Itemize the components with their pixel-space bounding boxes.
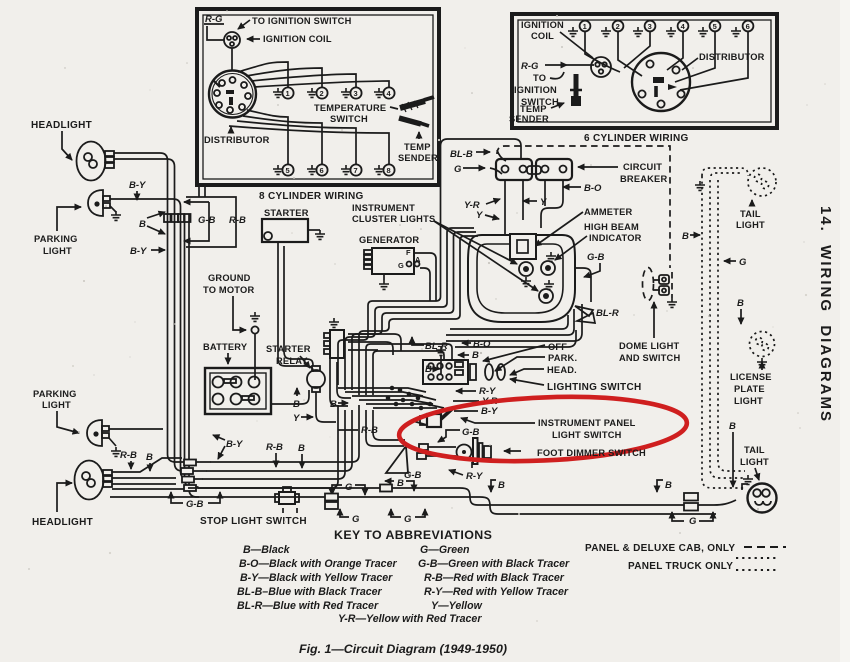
- svg-text:TEMP: TEMP: [404, 142, 431, 152]
- wire label to parking light: [57, 207, 81, 231]
- plug 1: [273, 87, 294, 98]
- wire coil left to R-G: [207, 26, 224, 40]
- svg-text:HEADLIGHT: HEADLIGHT: [31, 120, 92, 131]
- svg-text:F: F: [406, 248, 411, 257]
- svg-text:G: G: [352, 514, 360, 525]
- svg-text:TO MOTOR: TO MOTOR: [203, 285, 254, 295]
- red highlight ellipse: [398, 391, 688, 467]
- svg-text:PARKING: PARKING: [33, 389, 77, 399]
- plug4: [666, 21, 688, 37]
- svg-text:INSTRUMENT: INSTRUMENT: [352, 203, 415, 213]
- lighting switch SW1: [423, 360, 505, 384]
- plug 7: [341, 164, 362, 175]
- tail light TL1 (top, dotted): [748, 168, 776, 196]
- ignition switch (column): [324, 318, 344, 358]
- svg-text:TAIL: TAIL: [744, 445, 765, 455]
- plug 8: [374, 164, 395, 175]
- plug1: [568, 21, 590, 37]
- svg-text:G-B: G-B: [198, 215, 216, 226]
- wire ignition switch down 1: [330, 358, 348, 406]
- ground at bottom tail light: [742, 484, 748, 490]
- circuit breaker CB1: [496, 159, 572, 180]
- wire feeder short 6: [373, 410, 405, 440]
- ammeter A1: [510, 234, 536, 259]
- svg-text:1: 1: [286, 89, 290, 98]
- svg-text:G: G: [404, 514, 412, 525]
- left vertical bus wires: [185, 214, 199, 487]
- connector sleeves: [164, 214, 171, 222]
- svg-text:HIGH BEAM: HIGH BEAM: [584, 222, 639, 232]
- wire cluster right to hooks: [575, 268, 591, 302]
- svg-text:R-B: R-B: [361, 425, 378, 436]
- parking light PL1 (upper): [88, 190, 121, 220]
- cluster bulb 2: [539, 289, 553, 303]
- svg-text:Y—Yellow: Y—Yellow: [431, 600, 483, 612]
- svg-text:STARTER: STARTER: [266, 344, 311, 354]
- dome light DL1: [643, 268, 678, 308]
- connector sleeves on left bottom: [184, 460, 196, 466]
- wire nest row 1: [338, 388, 426, 392]
- svg-text:FOOT DIMMER SWITCH: FOOT DIMMER SWITCH: [537, 448, 646, 458]
- wire arrow to coil: [247, 38, 260, 40]
- svg-text:B-Y—Black with Yellow Tracer: B-Y—Black with Yellow Tracer: [240, 572, 393, 584]
- svg-text:B-Y: B-Y: [226, 439, 244, 450]
- staircase wire 6 (switch feed): [373, 351, 444, 395]
- connector sleeves on bus: [325, 494, 338, 501]
- svg-text:PLATE: PLATE: [734, 384, 765, 394]
- wire nest row 3: [352, 396, 436, 400]
- svg-text:IGNITION: IGNITION: [521, 20, 564, 30]
- wire nest row 5: [366, 404, 444, 408]
- sleeves right: [684, 493, 698, 501]
- svg-text:B: B: [146, 452, 153, 463]
- bottom bus to tail light: [188, 488, 736, 505]
- svg-text:INDICATOR: INDICATOR: [589, 233, 642, 243]
- wire arrow to coil: [238, 20, 250, 29]
- svg-text:B: B: [682, 231, 689, 242]
- svg-text:R-G: R-G: [521, 61, 539, 72]
- svg-text:OFF: OFF: [548, 342, 567, 352]
- arrow B to wires: [147, 212, 165, 218]
- svg-text:Y-R—Yellow with Red Tracer: Y-R—Yellow with Red Tracer: [338, 613, 482, 625]
- legend: panel & deluxe cab: [585, 543, 786, 572]
- svg-text:BATTERY: BATTERY: [203, 342, 248, 352]
- wire parking light to bus: [110, 199, 203, 479]
- svg-text:B: B: [729, 421, 736, 432]
- plug 3: [341, 87, 362, 98]
- svg-text:BL-R: BL-R: [425, 341, 448, 352]
- wire battery to relay: [271, 390, 309, 404]
- cluster bulb 1: [519, 262, 533, 276]
- wires breaker to cluster: [504, 180, 506, 236]
- svg-text:LIGHT: LIGHT: [734, 396, 763, 406]
- hook terminal wire 2: [446, 309, 574, 335]
- staircase wire 3: [352, 232, 476, 390]
- svg-text:BL-R—Blue with Red Tracer: BL-R—Blue with Red Tracer: [237, 600, 379, 612]
- svg-text:TEMPERATURE: TEMPERATURE: [314, 103, 386, 113]
- svg-text:3: 3: [648, 22, 652, 31]
- svg-text:HEAD.: HEAD.: [547, 365, 577, 375]
- svg-text:B-O: B-O: [473, 339, 491, 350]
- spark wires to plugs 5-8: [247, 110, 288, 164]
- wire G to breaker: [490, 168, 502, 174]
- plug 5: [273, 164, 294, 175]
- svg-text:R-Y—Red with Yellow Tracer: R-Y—Red with Yellow Tracer: [424, 586, 569, 598]
- svg-text:LIGHT: LIGHT: [736, 220, 765, 230]
- svg-text:DISTRIBUTOR: DISTRIBUTOR: [204, 135, 270, 145]
- svg-text:AMMETER: AMMETER: [584, 207, 632, 217]
- svg-text:SENDER: SENDER: [398, 153, 438, 163]
- svg-text:LIGHT: LIGHT: [740, 457, 769, 467]
- foot dimmer switch SW4: [417, 438, 491, 464]
- wire label to lower headlight: [57, 483, 72, 512]
- svg-text:3: 3: [354, 89, 358, 98]
- wire ignition switch down 2: [337, 362, 351, 398]
- arrow B-Y down: [136, 191, 138, 200]
- wire nest row 4: [359, 400, 433, 404]
- svg-text:IGNITION COIL: IGNITION COIL: [263, 34, 332, 44]
- svg-text:B: B: [293, 399, 300, 410]
- svg-text:LIGHT: LIGHT: [43, 246, 72, 256]
- svg-text:Fig. 1—Circuit Diagram (1949-1: Fig. 1—Circuit Diagram (1949-1950): [299, 642, 507, 656]
- right dotted bus (panel truck only): [702, 176, 746, 488]
- wire relay down: [316, 392, 336, 422]
- svg-text:G-B—Green with Black Tracer: G-B—Green with Black Tracer: [418, 558, 570, 570]
- svg-text:B: B: [397, 478, 404, 489]
- svg-text:B-Y: B-Y: [130, 246, 148, 257]
- wire generator A terminal: [420, 268, 430, 301]
- wire ignition feed 3: [348, 349, 378, 351]
- svg-text:TO: TO: [533, 73, 546, 83]
- svg-text:B: B: [737, 298, 744, 309]
- plug3: [633, 21, 655, 37]
- svg-text:5: 5: [713, 22, 717, 31]
- svg-text:G: G: [454, 164, 462, 175]
- inset frame: [197, 9, 439, 185]
- svg-text:G: G: [689, 516, 697, 527]
- svg-text:PANEL TRUCK ONLY: PANEL TRUCK ONLY: [628, 561, 733, 572]
- dashed wire to dome (panel/deluxe cab): [497, 146, 670, 268]
- bracket R-B: [186, 197, 236, 247]
- svg-text:1: 1: [583, 22, 587, 31]
- starter relay K1: [307, 366, 325, 392]
- svg-text:B-O: B-O: [584, 183, 602, 194]
- junction dots: [398, 388, 403, 393]
- svg-text:B-Y: B-Y: [481, 406, 499, 417]
- arrow instrument panel label to switch: [461, 418, 535, 423]
- wire headlight to bus: [114, 153, 211, 462]
- wire parking lower to bus: [109, 428, 163, 430]
- svg-text:B—Black: B—Black: [243, 544, 291, 556]
- battery BAT1: [205, 368, 271, 414]
- wire feeder to left fan 3: [202, 410, 345, 479]
- svg-text:GENERATOR: GENERATOR: [359, 235, 419, 245]
- wire coil to distributor: [231, 48, 233, 70]
- svg-text:LIGHT: LIGHT: [42, 400, 71, 410]
- svg-text:7: 7: [354, 166, 358, 175]
- svg-text:BL-B: BL-B: [450, 149, 473, 160]
- svg-text:R-B—Red with Black Tracer: R-B—Red with Black Tracer: [424, 572, 565, 584]
- svg-text:5: 5: [286, 166, 290, 175]
- svg-text:PARK.: PARK.: [548, 353, 577, 363]
- staircase wire 5 (switch feed): [366, 344, 452, 395]
- wire ignition feed 1: [348, 334, 401, 351]
- generator G1: [364, 248, 421, 289]
- svg-text:DOME LIGHT: DOME LIGHT: [619, 341, 679, 351]
- hook terminal wire 3: [450, 315, 568, 329]
- svg-text:B: B: [472, 350, 479, 361]
- spark wires to plugs 1-4: [238, 62, 288, 87]
- svg-text:IGNITION: IGNITION: [514, 85, 557, 95]
- svg-text:B: B: [498, 480, 505, 491]
- arrow foot dimmer: [504, 450, 521, 452]
- svg-text:TO IGNITION SWITCH: TO IGNITION SWITCH: [252, 16, 352, 26]
- wire ignition feed 2: [348, 342, 393, 355]
- headlight HL2 (lower): [75, 461, 113, 500]
- svg-text:R-B: R-B: [266, 442, 283, 453]
- wire generator F terminal: [414, 253, 436, 301]
- svg-text:2: 2: [616, 22, 620, 31]
- svg-text:8 CYLINDER WIRING: 8 CYLINDER WIRING: [259, 191, 364, 202]
- svg-text:PARKING: PARKING: [34, 234, 78, 244]
- svg-text:LICENSE: LICENSE: [730, 372, 772, 382]
- temp switch / sender symbols: [399, 97, 434, 126]
- ground top right: [695, 181, 705, 190]
- tail light TL2 (bottom): [748, 484, 777, 513]
- svg-text:R-Y: R-Y: [466, 471, 484, 482]
- svg-text:G: G: [739, 257, 747, 268]
- wire stubs from inset box to loop: [199, 187, 205, 197]
- plug2: [601, 21, 623, 37]
- hook terminal wire 4: [455, 330, 576, 347]
- KEY TO ABBREVIATIONS: [237, 528, 570, 625]
- instrument cluster body: [468, 235, 575, 322]
- svg-text:BREAKER: BREAKER: [620, 174, 667, 184]
- svg-text:6 CYLINDER WIRING: 6 CYLINDER WIRING: [584, 133, 689, 144]
- svg-text:PANEL & DELUXE CAB, ONLY: PANEL & DELUXE CAB, ONLY: [585, 543, 735, 554]
- svg-text:BL-R: BL-R: [596, 308, 619, 319]
- svg-text:B: B: [298, 443, 305, 454]
- svg-text:COIL: COIL: [531, 31, 554, 41]
- temp sender (6cyl): [570, 74, 582, 106]
- dotted wires to top tail light: [702, 168, 748, 176]
- wire ammeter label: [535, 212, 583, 246]
- parking light PL2 (lower): [87, 420, 121, 456]
- instrument panel light switch SW3: [413, 409, 452, 427]
- svg-text:LIGHTING SWITCH: LIGHTING SWITCH: [547, 382, 642, 393]
- svg-text:B-O—Black with Orange Tracer: B-O—Black with Orange Tracer: [239, 558, 397, 570]
- svg-text:KEY TO ABBREVIATIONS: KEY TO ABBREVIATIONS: [334, 528, 492, 542]
- svg-text:B-Y: B-Y: [129, 180, 147, 191]
- svg-text:R-B: R-B: [120, 450, 137, 461]
- headlight HL1 (upper): [77, 142, 115, 181]
- svg-text:G-B: G-B: [587, 252, 605, 263]
- svg-text:TAIL: TAIL: [740, 209, 761, 219]
- svg-text:SENDER: SENDER: [509, 114, 549, 124]
- svg-text:G-B: G-B: [462, 427, 480, 438]
- wire starter to relay: [278, 241, 313, 372]
- ignition coil U1: [224, 32, 240, 48]
- distributor (6cyl): [632, 53, 690, 111]
- plug6: [731, 21, 753, 37]
- svg-text:INSTRUMENT PANEL: INSTRUMENT PANEL: [538, 418, 636, 428]
- wire nest row 2: [345, 392, 423, 396]
- svg-text:LIGHT SWITCH: LIGHT SWITCH: [552, 430, 622, 440]
- hook wire BL-B to breaker: [497, 150, 506, 161]
- svg-text:G-B: G-B: [186, 499, 204, 510]
- staircase wire 1: [338, 139, 521, 385]
- svg-text:CLUSTER LIGHTS: CLUSTER LIGHTS: [352, 214, 435, 224]
- hook terminal wire 1: [446, 304, 582, 341]
- svg-text:G: G: [398, 261, 404, 270]
- svg-text:CIRCUIT: CIRCUIT: [623, 162, 662, 172]
- license plate light LP1 (dotted): [750, 332, 775, 368]
- wire nest row 6: [373, 407, 437, 409]
- distributor (8 cyl): [209, 71, 256, 118]
- plug 4: [374, 87, 395, 98]
- plug5: [698, 21, 720, 37]
- svg-text:DISTRIBUTOR: DISTRIBUTOR: [699, 52, 765, 62]
- svg-text:SWITCH: SWITCH: [330, 114, 368, 124]
- high beam bulb: [541, 261, 555, 275]
- wire feeder to left fan 2: [206, 410, 352, 471]
- ignition coil (6cyl): [591, 57, 611, 77]
- bracket G-B: [184, 201, 209, 203]
- arrows cluster lights to bulbs: [434, 221, 517, 264]
- staircase wire 4: [359, 236, 478, 395]
- svg-text:G-B: G-B: [404, 470, 422, 481]
- svg-text:8: 8: [387, 166, 391, 175]
- svg-text:HEADLIGHT: HEADLIGHT: [32, 517, 93, 528]
- wire feeder short 5: [366, 410, 404, 446]
- wires headlight lower to bus: [112, 458, 182, 472]
- svg-text:STARTER: STARTER: [264, 208, 309, 218]
- wire label to headlight: [62, 131, 72, 160]
- svg-text:GROUND: GROUND: [208, 273, 251, 283]
- svg-text:B: B: [139, 219, 146, 230]
- big G-B triangle: [386, 446, 408, 473]
- wire label to lower parking light: [57, 411, 79, 433]
- starter motor M1: [262, 219, 308, 242]
- plug 6: [307, 164, 328, 175]
- svg-text:AND SWITCH: AND SWITCH: [619, 353, 680, 363]
- wire label to ground post: [233, 296, 246, 330]
- svg-text:6: 6: [746, 22, 750, 31]
- svg-text:G—Green: G—Green: [420, 544, 470, 556]
- staircase wire 2: [345, 228, 474, 390]
- svg-text:2: 2: [320, 89, 324, 98]
- stop light switch SW2: [275, 487, 299, 504]
- svg-text:B: B: [665, 480, 672, 491]
- wire feeder to left fan 1: [210, 405, 359, 462]
- svg-text:6: 6: [320, 166, 324, 175]
- plug 2: [307, 87, 328, 98]
- B label and ground near cluster bottom: [440, 356, 442, 374]
- svg-text:TEMP: TEMP: [520, 104, 547, 114]
- svg-text:14. WIRING DIAGRAMS: 14. WIRING DIAGRAMS: [817, 206, 834, 423]
- svg-text:BL-B–Blue with Black Tracer: BL-B–Blue with Black Tracer: [237, 586, 383, 598]
- svg-text:G: G: [345, 482, 353, 493]
- svg-text:R-B: R-B: [229, 215, 246, 226]
- svg-text:STOP LIGHT SWITCH: STOP LIGHT SWITCH: [200, 516, 307, 527]
- wire feeder to left fan 4: [198, 405, 338, 488]
- spark wires 6cyl: [585, 32, 620, 72]
- ground post: [250, 312, 260, 321]
- wire from coil text to coil: [560, 32, 593, 58]
